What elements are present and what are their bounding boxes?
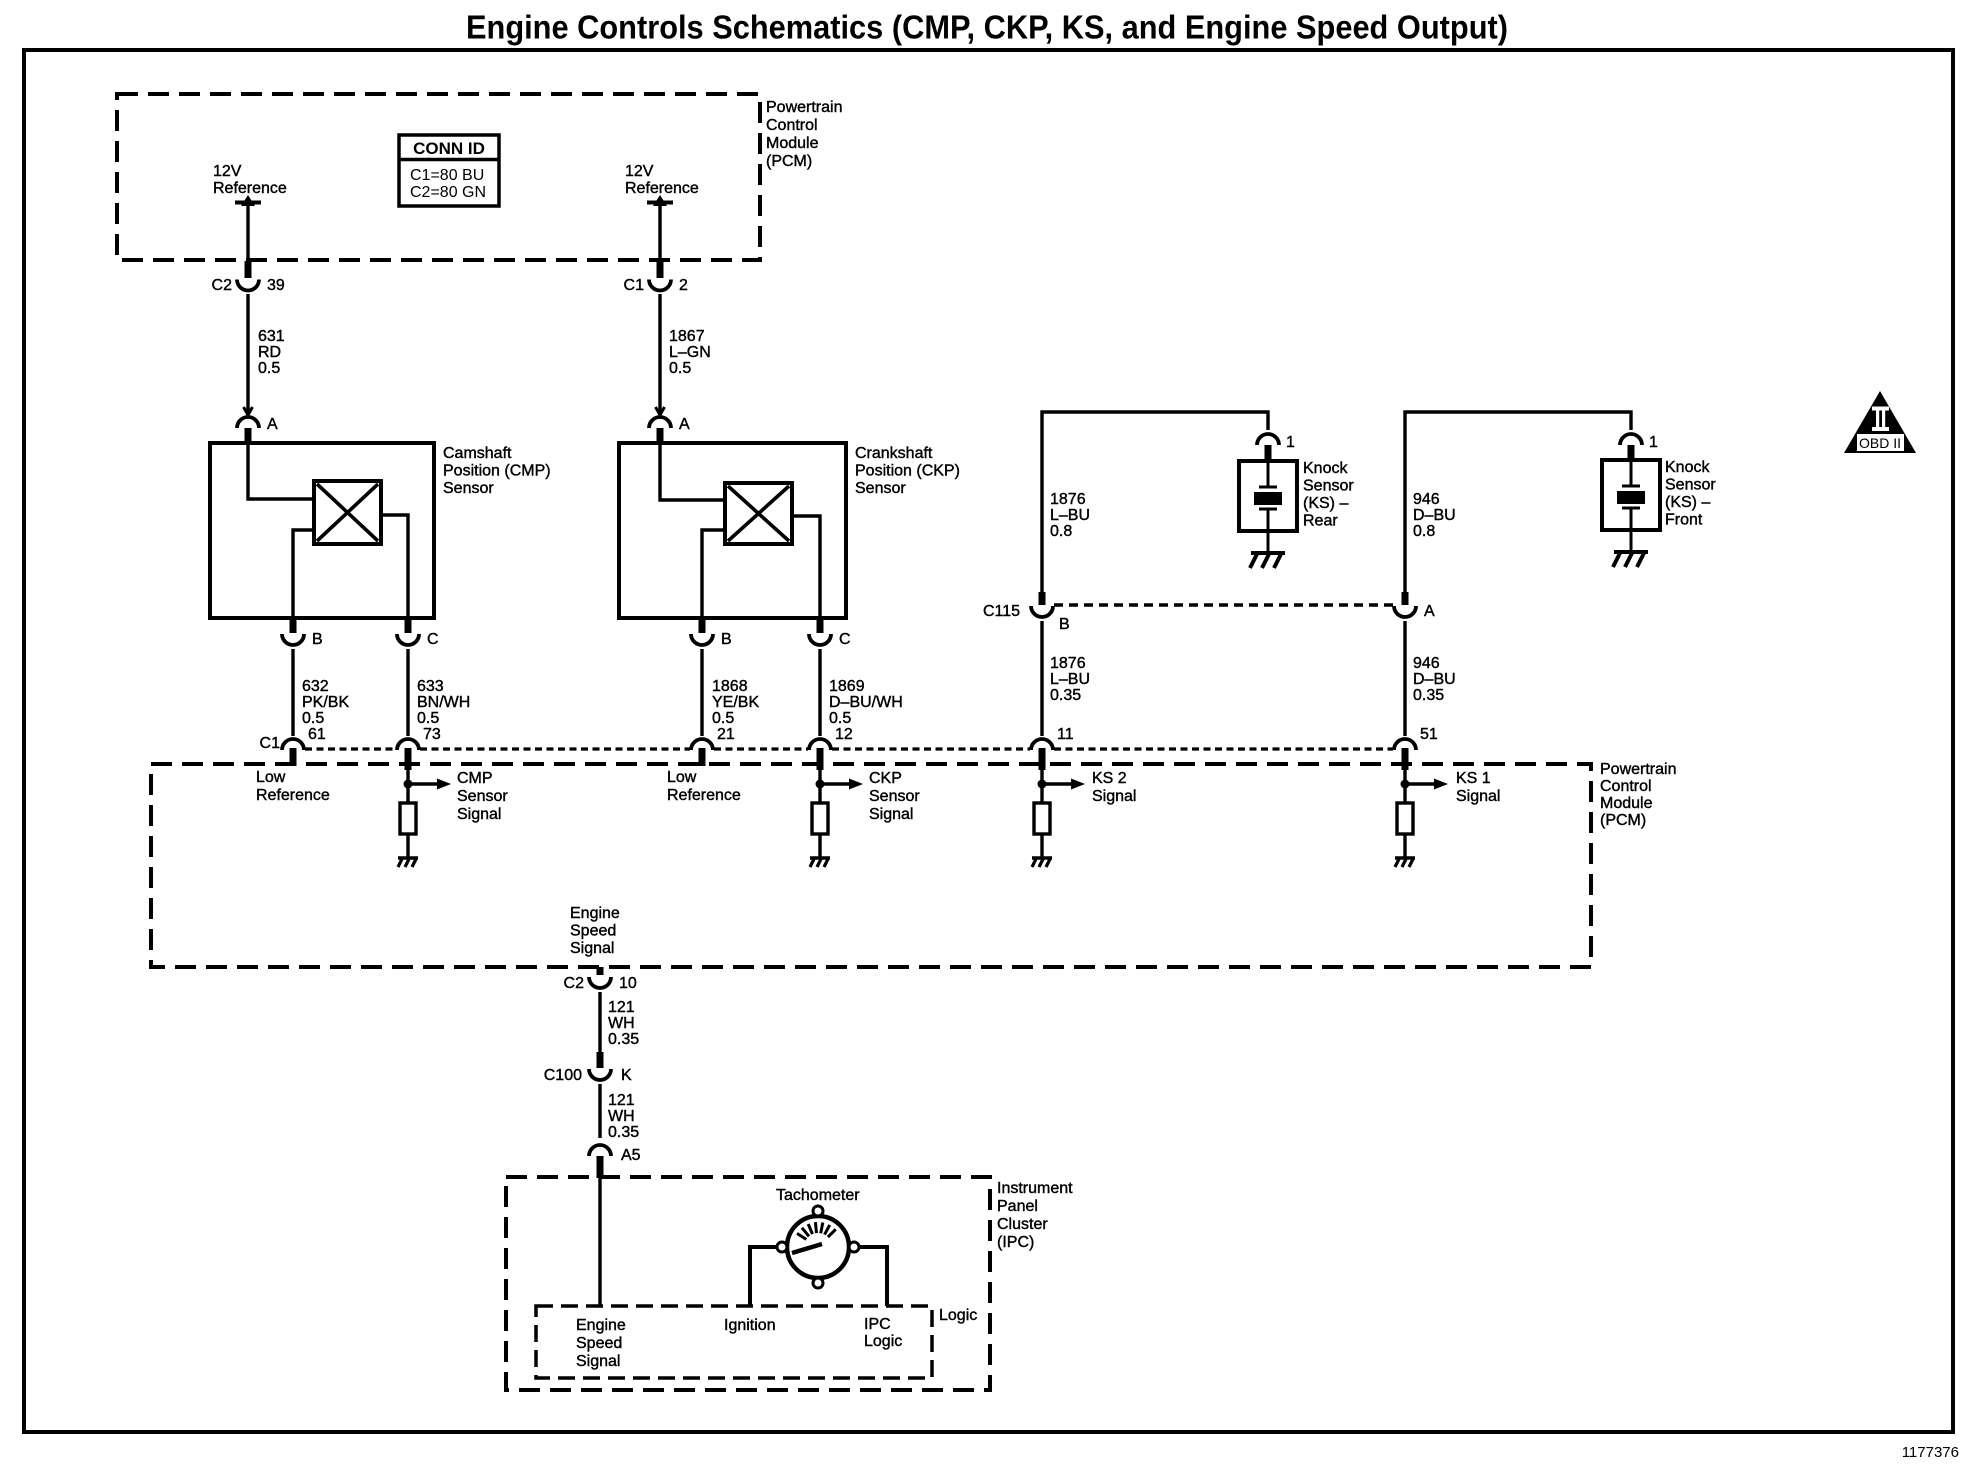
svg-text:0.5: 0.5: [258, 360, 280, 377]
svg-text:Signal: Signal: [457, 806, 501, 823]
connector pin 1 (KS rear) stub: [1265, 445, 1272, 462]
svg-text:Engine: Engine: [570, 905, 620, 922]
svg-text:(PCM): (PCM): [1600, 812, 1646, 829]
svg-text:11: 11: [1057, 726, 1074, 743]
junction node (CMP): [404, 780, 413, 789]
CONN ID table: [399, 135, 499, 206]
knock sensor KS front internal wire bottom: [1630, 508, 1633, 552]
svg-text:Sensor: Sensor: [443, 480, 494, 497]
dotted in-line harness row: [305, 747, 396, 750]
svg-text:Crankshaft: Crankshaft: [855, 445, 933, 462]
wire CKP A to element: [660, 443, 725, 500]
svg-text:0.5: 0.5: [417, 710, 439, 727]
svg-text:Control: Control: [766, 117, 818, 134]
svg-text:0.35: 0.35: [608, 1124, 639, 1141]
svg-text:Knock: Knock: [1303, 460, 1348, 477]
knock sensor KS front piezo element: [1617, 491, 1645, 504]
svg-text:Signal: Signal: [570, 940, 614, 957]
svg-text:0.35: 0.35: [1413, 687, 1444, 704]
svg-text:1177376: 1177376: [1902, 1444, 1959, 1461]
svg-text:C1=80 BU: C1=80 BU: [410, 167, 484, 184]
sensor CMP box: [210, 443, 434, 618]
wire pin 51 to junction: [1403, 770, 1406, 803]
ground (CMP input): [398, 856, 418, 859]
connector C100 pin K stub: [597, 1052, 604, 1068]
connector pin A5 arc: [589, 1145, 611, 1156]
OBD II symbol: [1844, 391, 1916, 453]
svg-text:C1: C1: [624, 277, 645, 294]
svg-text:Rear: Rear: [1303, 513, 1338, 530]
svg-text:121: 121: [608, 1092, 635, 1109]
svg-text:61: 61: [308, 726, 326, 743]
svg-text:Speed: Speed: [576, 1335, 622, 1352]
svg-text:Module: Module: [766, 135, 819, 152]
svg-text:A: A: [679, 416, 690, 433]
svg-text:A: A: [1424, 603, 1435, 620]
svg-text:21: 21: [717, 726, 735, 743]
svg-text:633: 633: [417, 678, 444, 695]
svg-text:Ignition: Ignition: [724, 1317, 776, 1334]
pin 61 stub into PCM: [290, 748, 297, 766]
svg-text:(PCM): (PCM): [766, 153, 812, 170]
connector C1 pin 51 arc: [1394, 739, 1416, 750]
wire fork at pin A (CMP): [244, 407, 253, 415]
junction node (KS 1): [1401, 780, 1410, 789]
svg-text:0.5: 0.5: [669, 360, 691, 377]
wire resistor to ground (CMP): [406, 834, 409, 858]
svg-text:(KS) –: (KS) –: [1665, 494, 1710, 511]
connector pin A5 stub: [597, 1156, 604, 1178]
wire CMP element to pin B: [293, 530, 314, 618]
connector pin B (CKP) stub: [699, 618, 706, 633]
svg-text:Front: Front: [1665, 512, 1703, 529]
ground (KS 2 input): [1032, 856, 1052, 859]
connector pin A (CKP) stub: [657, 428, 664, 444]
junction node (CKP): [816, 780, 825, 789]
svg-text:Speed: Speed: [570, 923, 616, 940]
svg-text:PK/BK: PK/BK: [302, 694, 349, 711]
wire 12V to C2-39: [246, 205, 249, 260]
svg-text:D–BU/WH: D–BU/WH: [829, 694, 903, 711]
svg-text:Sensor: Sensor: [855, 480, 906, 497]
connector C1 pin 11 arc: [1031, 739, 1053, 750]
svg-text:12V: 12V: [625, 163, 654, 180]
sensor CKP box: [619, 443, 846, 618]
tachometer gauge: [787, 1216, 849, 1278]
wire 1876 L-BU 0.35 segment: [1040, 621, 1043, 736]
svg-text:Signal: Signal: [1456, 788, 1500, 805]
connector C1 pin 2 arc: [649, 280, 671, 291]
pin 73 stub through PCM edge: [405, 748, 412, 770]
svg-text:Powertrain: Powertrain: [766, 99, 842, 116]
svg-text:Sensor: Sensor: [869, 788, 920, 805]
connector C2 pin 39 stub: [245, 261, 252, 278]
svg-text:WH: WH: [608, 1015, 635, 1032]
connector C1 pin 61 arc: [282, 739, 304, 750]
svg-text:0.8: 0.8: [1413, 523, 1435, 540]
svg-text:1: 1: [1286, 434, 1295, 451]
svg-text:Engine Controls Schematics (CM: Engine Controls Schematics (CMP, CKP, KS…: [466, 9, 1508, 46]
svg-text:946: 946: [1413, 491, 1440, 508]
sensor CMP element (X box): [314, 481, 381, 544]
svg-text:Position (CMP): Position (CMP): [443, 463, 551, 480]
svg-text:OBD II: OBD II: [1859, 435, 1901, 451]
svg-text:1876: 1876: [1050, 491, 1086, 508]
connector pin 1 (KS rear) arc: [1257, 434, 1279, 445]
wire CMP A to element: [248, 443, 314, 499]
svg-text:Low: Low: [256, 769, 286, 786]
svg-text:0.35: 0.35: [1050, 687, 1081, 704]
wire 633 BN/WH segment: [406, 649, 409, 736]
svg-text:A5: A5: [621, 1147, 641, 1164]
svg-text:1876: 1876: [1050, 655, 1086, 672]
connector pin B (CMP) stub: [290, 618, 297, 633]
wire resistor to ground (KS 2): [1040, 834, 1043, 858]
svg-text:C115: C115: [983, 603, 1020, 620]
signal arrow (CMP): [412, 782, 438, 786]
svg-text:KS 1: KS 1: [1456, 770, 1491, 787]
svg-text:0.5: 0.5: [829, 710, 851, 727]
wire CKP element to pin B: [702, 530, 725, 618]
wire KS front harness: [1405, 412, 1631, 592]
knock sensor KS front internal wire top: [1630, 460, 1633, 486]
svg-text:Tachometer: Tachometer: [776, 1187, 860, 1204]
wire 1867 L-GN segment: [658, 294, 661, 412]
knock sensor KS rear internal wire top: [1267, 461, 1270, 487]
svg-text:Low: Low: [667, 769, 697, 786]
svg-text:B: B: [312, 631, 323, 648]
connector pin 1 (KS front) stub: [1628, 445, 1635, 461]
ground (CKP input): [810, 856, 830, 859]
wire pin 11 to junction: [1040, 770, 1043, 803]
svg-text:Reference: Reference: [256, 787, 330, 804]
svg-text:C2=80 GN: C2=80 GN: [410, 184, 486, 201]
svg-text:B: B: [1059, 616, 1070, 633]
svg-text:Cluster: Cluster: [997, 1216, 1048, 1233]
svg-text:121: 121: [608, 999, 635, 1016]
knock sensor KS rear piezo element: [1254, 492, 1282, 505]
svg-text:C2: C2: [564, 975, 585, 992]
svg-text:10: 10: [619, 975, 637, 992]
resistor (KS 2 input): [1034, 803, 1050, 834]
connector C2 pin 39 arc: [237, 280, 259, 291]
module PCM (bottom) outline: [151, 764, 1591, 967]
knock sensor KS rear piezo top plate: [1259, 486, 1277, 489]
wire 946 D-BU 0.35 segment: [1403, 621, 1406, 736]
connector C2 pin 10 arc: [589, 977, 611, 988]
svg-text:0.35: 0.35: [608, 1031, 639, 1048]
svg-text:631: 631: [258, 328, 285, 345]
connector pin A (C115) arc: [1394, 606, 1416, 617]
pin 21 stub into PCM: [699, 748, 706, 766]
wire pin 73 to junction: [406, 770, 409, 803]
signal arrow (KS 1): [1409, 782, 1435, 786]
12V feed arrow (right): [653, 195, 667, 206]
connector pin C (CMP) arc: [397, 634, 419, 645]
knock sensor KS rear box: [1239, 461, 1297, 531]
connector pin A (CKP) arc: [649, 417, 671, 428]
svg-text:D–BU: D–BU: [1413, 671, 1456, 688]
svg-text:WH: WH: [608, 1108, 635, 1125]
svg-text:Logic: Logic: [939, 1307, 977, 1324]
connector pin A (C115) stub: [1402, 592, 1409, 605]
svg-text:Position (CKP): Position (CKP): [855, 463, 960, 480]
signal arrow (CKP): [824, 782, 850, 786]
connector C1 pin 21 arc: [691, 739, 713, 750]
svg-text:KS 2: KS 2: [1092, 770, 1127, 787]
wire CKP element to pin C: [792, 516, 820, 618]
connector C1 pin 2 stub: [657, 261, 664, 278]
svg-text:946: 946: [1413, 655, 1440, 672]
svg-text:Instrument: Instrument: [997, 1180, 1073, 1197]
wire 1869 D-BU/WH segment: [818, 649, 821, 736]
12V feed arrow (left): [241, 195, 255, 206]
svg-text:IPC: IPC: [864, 1316, 891, 1333]
connector pin C (CMP) stub: [405, 618, 412, 633]
svg-text:L–BU: L–BU: [1050, 507, 1090, 524]
wire engine speed into IPC: [598, 1178, 601, 1306]
wire 121 WH segment 2: [598, 1084, 601, 1138]
svg-text:1: 1: [1649, 434, 1658, 451]
connector C2 pin 10 stub: [597, 967, 604, 975]
connector pin B (CKP) arc: [691, 634, 713, 645]
connector pin A (CMP) arc: [237, 417, 259, 428]
knock sensor KS front piezo top plate: [1622, 485, 1640, 488]
svg-text:A: A: [267, 416, 278, 433]
svg-text:Signal: Signal: [869, 806, 913, 823]
wire CMP element to pin C: [381, 515, 408, 618]
connector C1 pin 73 arc: [397, 739, 419, 750]
wire fork at pin A (CKP): [656, 407, 665, 415]
svg-text:Knock: Knock: [1665, 459, 1710, 476]
svg-text:Camshaft: Camshaft: [443, 445, 512, 462]
svg-text:Reference: Reference: [625, 180, 699, 197]
svg-text:RD: RD: [258, 344, 281, 361]
svg-text:1867: 1867: [669, 328, 705, 345]
wire 632 PK/BK segment: [291, 649, 294, 736]
svg-text:Control: Control: [1600, 778, 1652, 795]
svg-text:Engine: Engine: [576, 1317, 626, 1334]
svg-text:51: 51: [1420, 726, 1438, 743]
svg-text:0.8: 0.8: [1050, 523, 1072, 540]
ground below knock sensor KS rear: [1251, 551, 1285, 555]
resistor (CMP input): [400, 803, 416, 834]
svg-text:Logic: Logic: [864, 1333, 902, 1350]
svg-text:Sensor: Sensor: [1303, 478, 1354, 495]
svg-text:C: C: [839, 631, 851, 648]
svg-text:D–BU: D–BU: [1413, 507, 1456, 524]
pin 51 stub through PCM edge: [1402, 748, 1409, 770]
svg-text:Signal: Signal: [1092, 788, 1136, 805]
svg-text:L–BU: L–BU: [1050, 671, 1090, 688]
wire KS rear harness: [1042, 412, 1268, 592]
connector C100 pin K arc: [589, 1069, 611, 1080]
wire tachometer to ignition: [750, 1247, 777, 1306]
svg-text:Module: Module: [1600, 795, 1653, 812]
svg-text:L–GN: L–GN: [669, 344, 711, 361]
svg-text:K: K: [621, 1067, 632, 1084]
ground below knock sensor KS front: [1614, 550, 1648, 554]
svg-text:1869: 1869: [829, 678, 865, 695]
knock sensor KS front box: [1602, 460, 1660, 530]
svg-text:2: 2: [679, 277, 688, 294]
ground (KS 1 input): [1395, 856, 1415, 859]
pin 11 stub through PCM edge: [1039, 748, 1046, 770]
connector pin C (CKP) stub: [817, 618, 824, 633]
svg-text:BN/WH: BN/WH: [417, 694, 470, 711]
connector C115 pin B stub: [1039, 592, 1046, 605]
svg-text:Powertrain: Powertrain: [1600, 761, 1676, 778]
connector C1 pin 12 arc: [809, 739, 831, 750]
svg-text:12: 12: [835, 726, 853, 743]
wire 1868 YE/BK segment: [700, 649, 703, 736]
signal arrow (KS 2): [1046, 782, 1072, 786]
junction node (KS 2): [1038, 780, 1047, 789]
svg-text:Signal: Signal: [576, 1353, 620, 1370]
svg-text:CONN ID: CONN ID: [413, 139, 485, 158]
pin 12 stub through PCM edge: [817, 748, 824, 770]
svg-text:Reference: Reference: [213, 180, 287, 197]
svg-text:1868: 1868: [712, 678, 748, 695]
module PCM (top) outline: [117, 94, 760, 260]
svg-text:(KS) –: (KS) –: [1303, 495, 1348, 512]
svg-text:C2: C2: [212, 277, 233, 294]
svg-text:B: B: [721, 631, 732, 648]
wire 12V to C1-2: [658, 205, 661, 260]
svg-text:Reference: Reference: [667, 787, 741, 804]
wire 121 WH segment 1: [598, 992, 601, 1052]
knock sensor KS rear piezo bottom plate: [1259, 508, 1277, 511]
svg-text:73: 73: [423, 726, 441, 743]
knock sensor KS rear internal wire bottom: [1267, 509, 1270, 553]
logic block outline: [536, 1306, 932, 1378]
svg-text:Panel: Panel: [997, 1198, 1038, 1215]
svg-text:C1: C1: [260, 735, 281, 752]
svg-text:0.5: 0.5: [712, 710, 734, 727]
knock sensor KS front piezo bottom plate: [1622, 507, 1640, 510]
wire 631 RD 0.5 segment: [246, 294, 249, 412]
resistor (KS 1 input): [1397, 803, 1413, 834]
svg-text:(IPC): (IPC): [997, 1234, 1034, 1251]
resistor (CKP input): [812, 803, 828, 834]
svg-text:C100: C100: [544, 1067, 582, 1084]
svg-text:Sensor: Sensor: [1665, 477, 1716, 494]
svg-text:12V: 12V: [213, 163, 242, 180]
svg-text:CMP: CMP: [457, 770, 493, 787]
connector pin B (CMP) arc: [282, 634, 304, 645]
svg-text:C: C: [427, 631, 439, 648]
svg-text:Sensor: Sensor: [457, 788, 508, 805]
module IPC outline: [506, 1177, 990, 1390]
svg-text:632: 632: [302, 678, 329, 695]
wire resistor to ground (KS 1): [1403, 834, 1406, 858]
connector C115 pin B arc: [1031, 606, 1053, 617]
wire pin 12 to junction: [818, 770, 821, 803]
connector C115 dotted in-line: [1054, 603, 1393, 607]
sensor CKP element (X box): [725, 483, 792, 544]
connector pin 1 (KS front) arc: [1620, 434, 1642, 445]
wire resistor to ground (CKP): [818, 834, 821, 858]
svg-text:YE/BK: YE/BK: [712, 694, 759, 711]
svg-text:39: 39: [267, 277, 285, 294]
wire tachometer to IPC logic: [859, 1247, 887, 1306]
svg-text:CKP: CKP: [869, 770, 902, 787]
svg-text:0.5: 0.5: [302, 710, 324, 727]
connector pin A (CMP) stub: [245, 428, 252, 444]
connector pin C (CKP) arc: [809, 634, 831, 645]
